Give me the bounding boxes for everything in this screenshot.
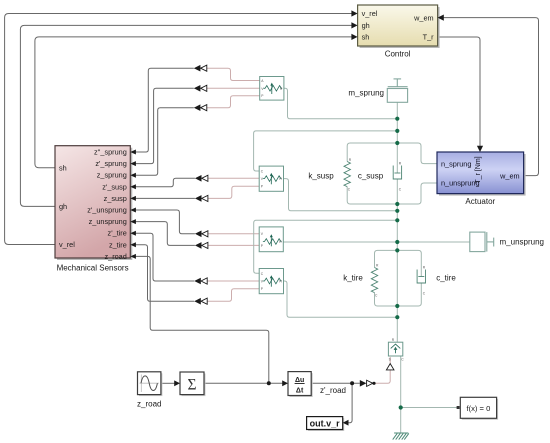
svg-text:T_r [Nm]: T_r [Nm] [475,156,482,183]
wire sine to sum [161,382,176,384]
wire sh loop (Mechanical Sensors sh to Control sh) [35,37,352,168]
sensor S4 tire motion sensor [259,269,283,294]
svg-text:z_susp: z_susp [104,194,127,203]
k_tire loop bottom rail [375,283,422,306]
wire gh loop (Mechanical Sensors gh to Control gh) [20,25,352,206]
svg-text:c_susp: c_susp [358,172,384,181]
ps wire conv1 to sensor1 A [207,68,260,80]
converter simulink-ps (bottom, pointing right) [360,380,373,387]
wire conv8 to z'_tire port [136,233,195,281]
svg-text:z_road: z_road [104,252,126,261]
wire sensor4 C to main node [254,220,398,273]
converter ps3 [194,104,207,111]
wire conv7 to z_unsprung port [136,222,195,246]
wire sum to derivative [204,382,283,384]
derivative block [282,372,313,397]
wire conv4 to z'_susp port [136,178,195,187]
main vertical line upper (m_sprung to c_susp piston) [396,102,398,173]
node j6 [395,218,399,222]
ps wire conv3 to sensor1 P [207,96,260,108]
svg-text:Δu: Δu [295,377,304,384]
converter ps5 [195,195,208,202]
wire sensor4 R to main node [284,281,398,317]
wire conv1 to z''_sprung port [136,68,194,152]
source z_road sine wave [138,372,163,396]
ground reference [393,433,409,440]
node j4 [395,202,399,206]
wire conv5 to z_susp port [136,197,195,199]
svg-text:n_sprung: n_sprung [441,159,471,168]
WIRES-PINK (physical signal lines) [207,68,390,383]
sensor S3 unsprung motion sensor [259,227,283,252]
spring k_susp [344,162,350,187]
ps wire conv7 to sensor3 P [208,244,259,246]
svg-text:Δt: Δt [296,387,304,394]
node j7 [395,240,399,244]
port arrow Control v_rel [351,10,357,16]
svg-text:z_tire: z_tire [109,240,127,249]
wire sensor2 R to main node [284,179,398,211]
node j8 [395,248,399,252]
JUNCTION-DOTS [395,117,403,410]
svg-text:m_unsprung: m_unsprung [500,238,544,247]
WIRES-CONVERTER-BLACK [136,68,360,423]
svg-text:z_road: z_road [137,399,161,408]
port arrow Control sh [351,34,357,40]
svg-text:f(x) = 0: f(x) = 0 [466,404,490,413]
svg-text:Actuator: Actuator [465,197,495,206]
solver f(x)=0 [457,397,498,420]
svg-text:z'_unsprung: z'_unsprung [87,206,127,215]
port arrow Control w_em (from right) [438,15,444,21]
source velocity (ideal translational velocity source) [388,338,404,362]
svg-text:w_em: w_em [499,171,519,180]
wire w_em (Actuator w_em to Control w_em) [443,18,538,176]
ps wire converter pair to velocity source S [373,357,390,383]
wire derivative to converter pair [311,382,360,384]
svg-text:Σ: Σ [187,376,196,393]
Mechanical Sensors port labels [59,148,127,261]
node j2 [395,129,399,133]
wire to out.v_r [348,383,352,422]
damper c_susp [393,166,401,180]
wire sensor2 C to main node [254,131,398,171]
svg-text:z_sprung: z_sprung [97,171,127,180]
ps wire conv8 to sensor4 V [207,280,259,282]
converter ps6 [195,231,208,238]
converter ps8 [194,278,207,285]
svg-text:k_tire: k_tire [343,274,363,283]
WIRES-TEAL (physical network) [254,88,470,433]
port arrows into Mechanical Sensors (10 inputs) [130,150,136,259]
subsystem Actuator [437,146,526,206]
mass m_sprung [387,79,407,102]
node dot after converter [372,382,375,385]
converter ps1 [194,65,207,72]
svg-text:out.v_r: out.v_r [310,419,341,429]
port arrow Control gh [351,22,357,28]
node j5 [395,209,399,213]
svg-text:k_susp: k_susp [308,172,334,181]
svg-text:z''_sprung: z''_sprung [94,148,127,157]
svg-text:z'_sprung: z'_sprung [95,159,126,168]
svg-text:sh: sh [362,32,370,41]
subsystem Mechanical Sensors [55,146,136,273]
sensor S2 susp motion sensor [259,166,283,191]
node jb2 out.v_r junction [350,381,354,385]
damper c_tire [417,270,425,284]
wire v_rel loop (Mechanical Sensors v_rel to Control v_rel) [5,14,352,245]
svg-text:gh: gh [362,21,370,30]
node j11 solver junction [399,405,403,409]
Control port labels v_rel gh sh w_em T_r [362,9,435,41]
converter ps7 [195,242,208,249]
wire to solver f(x)=0 [401,407,459,409]
svg-text:Mechanical Sensors: Mechanical Sensors [57,264,129,273]
wire velocity source C to ground [400,356,402,433]
svg-text:v_rel: v_rel [59,240,75,249]
converter ps4 [195,175,208,182]
svg-text:z'_susp: z'_susp [102,182,127,191]
wire sensor3 R to m_unsprung [283,241,470,243]
k_susp loop top rail and n_sprung stub [347,143,437,164]
node jb1 z_road junction [267,381,271,385]
svg-text:Control: Control [385,50,411,59]
svg-text:v_rel: v_rel [362,9,378,18]
svg-text:gh: gh [59,202,67,211]
node j9 [395,304,399,308]
mass m_unsprung [470,232,494,252]
spring k_tire [371,268,377,293]
ps wire conv2 to sensor1 V [207,87,260,89]
port arrow Actuator T_r (pointing down) [477,146,483,152]
node j1 [395,117,399,121]
node j10 [395,315,399,319]
subsystem Control [351,5,443,59]
svg-text:z'_road: z'_road [320,386,346,395]
wire conv2 to z'_sprung port [136,88,194,163]
wire z_road feedback (junction to z_road port) [136,256,269,383]
svg-text:n_unsprung: n_unsprung [441,179,480,188]
svg-text:w_em: w_em [413,13,433,22]
svg-text:z'_tire: z'_tire [108,229,127,238]
sensor S1 sprung motion sensor [260,77,284,101]
ps wire conv9 to sensor4 P [207,289,259,301]
svg-text:m_sprung: m_sprung [348,89,384,98]
ps wire conv5 to sensor2 P [208,186,259,198]
svg-text:T_r: T_r [423,32,435,41]
svg-text:c_tire: c_tire [436,274,456,283]
wire conv3 to z_sprung port [136,108,194,176]
k_susp loop bottom rail and n_unsprung stub [347,183,437,204]
ps wire conv6 to sensor3 V [208,233,259,235]
sum block [174,372,205,396]
node j3 [395,141,399,145]
CONVERTERS (PS-Simulink pairs) [194,65,394,387]
wire conv6 to z'_unsprung port [136,210,195,234]
converter ps2 [194,85,207,92]
WIRES-BLACK [5,14,539,245]
wire T_r (Control T_r to Actuator top) [438,37,480,147]
ps wire conv4 to sensor2 V [208,177,259,179]
svg-text:sh: sh [59,163,67,172]
Actuator port labels n_sprung n_unsprung w_em [441,159,520,187]
converter hollow arrow into velocity source S [386,364,394,370]
wire sensor1 R to main node [284,88,397,118]
svg-text:z_unsprung: z_unsprung [89,217,127,226]
outport out.v_r [307,417,349,431]
converter ps9 [194,298,207,305]
k_tire loop top rail [375,250,422,276]
main vertical line lower (c_susp cup to velocity source) [396,179,398,342]
wire conv9 to z_tire port [136,245,195,301]
